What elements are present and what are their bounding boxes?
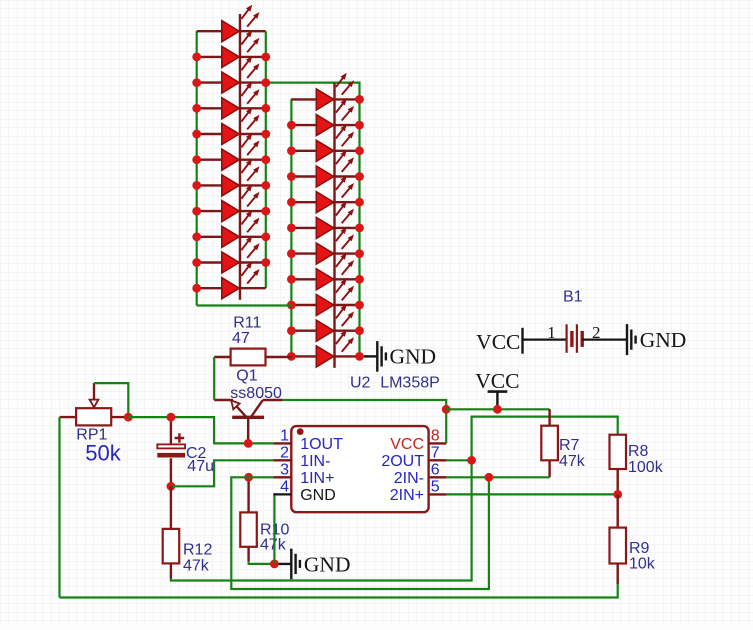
resistor R7 47k (541, 409, 585, 477)
junction: Q1 base on 1OUT wire (244, 439, 253, 448)
wire: R11 to Q1 emitter (213, 357, 215, 400)
svg-text:R8: R8 (628, 443, 649, 460)
LED left column row 5 (197, 107, 266, 144)
svg-text:10k: 10k (629, 555, 656, 572)
LED left column row 6 (197, 133, 266, 170)
svg-text:B1: B1 (563, 289, 583, 306)
LED left column row 10 (197, 236, 266, 273)
wire: R9 bottom rail to RP1 left (60, 584, 618, 598)
junction dots on left column anode bus (192, 53, 201, 293)
wire: VCC rail (446, 408, 549, 410)
wire: RP1 left terminal down to bottom rail (58, 417, 60, 597)
svg-text:8: 8 (431, 428, 440, 445)
LED cathode rail (left column) (239, 14, 241, 300)
svg-text:5: 5 (431, 479, 440, 496)
wire: right LED column anode bus (290, 99, 292, 356)
svg-text:R12: R12 (183, 541, 212, 558)
capacitor C2 47u (157, 417, 214, 486)
LED right column row 5 (291, 176, 360, 213)
svg-text:1IN+: 1IN+ (300, 470, 334, 487)
junction: GND / pin4 / R10 bottom (270, 560, 279, 569)
wire: C2 bottom to pin 2 (1IN-) (171, 460, 274, 486)
svg-text:2OUT: 2OUT (381, 453, 424, 470)
wire: pin 7 (2OUT) to feedback rail (446, 459, 471, 461)
LED right column row 3 (291, 124, 360, 161)
ground GND (battery negative) (627, 324, 686, 355)
svg-text:47u: 47u (187, 458, 214, 475)
svg-text:100k: 100k (628, 459, 664, 476)
wire: Q1 collector to VCC rail (282, 400, 446, 409)
wire: pin 4 (GND) down to ground junction (273, 494, 274, 564)
svg-text:VCC: VCC (390, 436, 424, 453)
wire: left column bottom to right column anode bus (197, 304, 292, 306)
LED right column row 4 (291, 150, 360, 187)
svg-text:47: 47 (232, 330, 250, 347)
ground GND (op-amp ground) (274, 549, 350, 580)
wire: pin 3 (1IN+) net down to 2IN- cross link (231, 477, 489, 589)
wire: pin 8 riser to VCC rail (445, 409, 447, 443)
LED right column row 9 (291, 278, 360, 315)
svg-text:VCC: VCC (476, 330, 520, 354)
pin 6 stub (429, 476, 447, 478)
svg-text:GND: GND (390, 345, 437, 369)
wire: left LED column anode bus (196, 31, 198, 305)
wire: right LED column cathode bus (266, 83, 360, 357)
svg-text:Q1: Q1 (236, 368, 257, 385)
svg-text:U2: U2 (350, 375, 371, 392)
svg-text:GND: GND (304, 552, 351, 576)
svg-text:47k: 47k (183, 558, 210, 575)
junction dots on right column anode bus (287, 121, 296, 361)
LED left column row 8 (197, 185, 266, 222)
pin 7 stub (429, 459, 447, 461)
pin 1 stub (273, 442, 291, 444)
LED right column row 7 (291, 227, 360, 264)
svg-text:1OUT: 1OUT (300, 436, 343, 453)
ground GND (LED cathode return) (364, 341, 436, 372)
junction: C2 top on RP1 wire (167, 413, 176, 422)
svg-text:VCC: VCC (475, 369, 519, 393)
svg-text:47k: 47k (559, 453, 586, 470)
transistor Q1 ss8050 (214, 368, 282, 444)
wire: RP1 right to C2 top and Q1 base net (128, 417, 273, 443)
junction: pin 7 on 2OUT rail (467, 456, 476, 465)
LED left column row 1 (197, 5, 266, 42)
resistor R11 (214, 315, 291, 366)
wire: left LED column cathode bus (265, 31, 267, 288)
svg-text:50k: 50k (85, 440, 121, 465)
svg-text:7: 7 (431, 445, 440, 462)
svg-text:GND: GND (300, 487, 336, 504)
svg-text:1IN-: 1IN- (300, 453, 330, 470)
svg-text:1: 1 (547, 323, 556, 342)
svg-text:2IN-: 2IN- (394, 470, 424, 487)
wire: RP1 wiper loop (94, 383, 128, 417)
LED cathode rail (right column) (333, 83, 335, 368)
pin 5 stub (429, 493, 447, 495)
pin 3 stub (273, 476, 291, 478)
resistor R10 47k (240, 477, 289, 561)
svg-text:6: 6 (431, 462, 440, 479)
junction: collector/pin8/VCC rail (442, 405, 451, 414)
pin 4 stub (273, 493, 291, 495)
LED left column row 3 (197, 56, 266, 93)
svg-text:3: 3 (280, 462, 289, 479)
svg-text:2: 2 (280, 445, 289, 462)
pin 8 stub (429, 442, 447, 444)
junction: pin 6 branch (485, 473, 494, 482)
LED right column row 10 (291, 304, 360, 341)
LED left column row 11 (197, 262, 266, 299)
LED left column row 2 (197, 30, 266, 67)
LED left column row 4 (197, 82, 266, 119)
svg-text:LM358P: LM358P (380, 375, 440, 392)
svg-text:GND: GND (640, 328, 687, 352)
svg-text:1: 1 (280, 428, 289, 445)
LED right column row 11 (291, 330, 360, 367)
junction: pin5 / R8 bottom / R9 top (613, 490, 622, 499)
wire: pin 6 (2IN-) to R7 bottom (446, 476, 549, 478)
pin 2 stub (273, 459, 291, 461)
wire: pin 5 (2IN+) to R8/R9 (446, 493, 617, 495)
junction dots on left column cathode bus (261, 53, 270, 267)
junction: VCC flag on rail (493, 405, 502, 414)
wire: R10 bottom to GND junction (249, 562, 275, 564)
wire: R12 bottom to 2OUT feedback rail (171, 417, 618, 581)
LED right column row 1 (291, 73, 360, 110)
LED right column row 6 (291, 201, 360, 238)
battery B1 (476, 289, 627, 354)
svg-text:2IN+: 2IN+ (390, 487, 424, 504)
power flag VCC (rail) (475, 369, 519, 410)
potentiometer RP1 50k (60, 383, 129, 465)
LED right column row 2 (291, 99, 360, 136)
svg-text:4: 4 (280, 479, 289, 496)
op-amp U2 LM358P body (291, 426, 428, 512)
junction: R10 top on 1IN+ wire (244, 473, 253, 482)
junction: RP1 wiper/right terminal (124, 413, 133, 422)
LED left column row 7 (197, 159, 266, 196)
resistor R9 10k (610, 494, 656, 584)
resistor R8 100k (610, 435, 664, 495)
resistor R12 47k (163, 486, 213, 578)
LED right column row 8 (291, 253, 360, 290)
junction dots on right column cathode bus (355, 95, 364, 361)
svg-text:R7: R7 (559, 437, 580, 454)
LED left column row 9 (197, 210, 266, 247)
junction: C2 bottom / R12 top / 1IN- net (167, 482, 176, 491)
